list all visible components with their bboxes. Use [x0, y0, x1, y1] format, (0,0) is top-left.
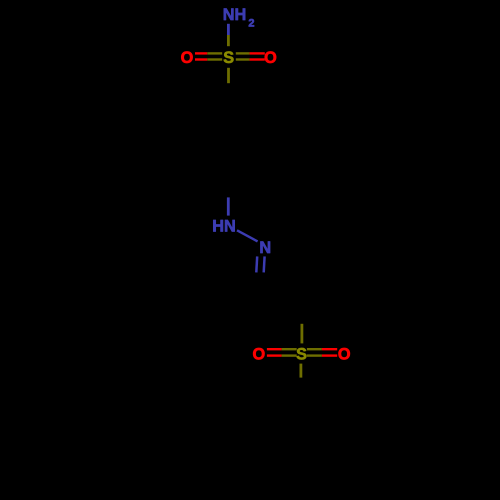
- double bond S1=O1 upper line: [195, 52, 222, 54]
- svg-text:2: 2: [248, 17, 254, 29]
- bond S1-C1 (S half, olive; carbon half invisible): [227, 68, 230, 83]
- bond N-S (N half, blue): [227, 24, 230, 35]
- svg-text:S: S: [223, 49, 234, 67]
- svg-text:O: O: [252, 345, 265, 363]
- svg-text:O: O: [338, 345, 351, 363]
- bond C4-N3 (N half, blue; carbon half invisible): [227, 197, 230, 215]
- double bond S2=O3 upper line: [267, 348, 297, 350]
- double bond S2=O4 upper line: [307, 348, 337, 350]
- svg-text:S: S: [296, 345, 307, 363]
- double bond S2=O3 lower line: [267, 354, 297, 356]
- svg-text:O: O: [181, 49, 194, 67]
- bond S2-C9 (S half, olive; phenyl carbon half invisible): [299, 364, 302, 378]
- atom label NH2 (sulfonamide nitrogen): [223, 6, 255, 30]
- bond C8-S2 (S half, olive): [300, 324, 303, 344]
- bond N-S (S half, olive): [227, 35, 230, 46]
- double bond S1=O2 lower line: [236, 58, 265, 60]
- double bond N4=C7 right line (N half blue): [262, 256, 265, 272]
- bond N3-N4 (blue diagonal): [237, 230, 258, 241]
- double bond S2=O4 lower line: [307, 354, 337, 356]
- svg-text:N: N: [259, 239, 271, 257]
- svg-text:NH: NH: [223, 6, 247, 24]
- double bond S1=O2 upper line: [236, 52, 265, 54]
- double bond N4=C7 left line (N half blue): [255, 256, 258, 272]
- svg-text:O: O: [264, 49, 277, 67]
- svg-text:HN: HN: [212, 218, 236, 236]
- double bond S1=O1 lower line: [195, 58, 222, 60]
